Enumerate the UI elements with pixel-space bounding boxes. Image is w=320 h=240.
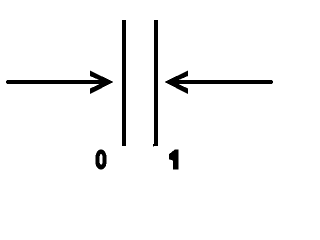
arrowhead of right current arrow (points left, toward pin 1) (165, 71, 189, 95)
capacitor C1 right plate (pin 1) (154, 20, 158, 146)
capacitor C1 left plate (pin 0) (122, 20, 126, 146)
pin number label 1 (169, 150, 178, 170)
arrowhead of left current arrow (points right, toward pin 0) (90, 71, 114, 95)
pin number label 0 (counter) (100, 154, 103, 165)
wire: right current-arrow shaft (170, 80, 271, 84)
capacitor C1 right plate bottom nub (153, 144, 154, 146)
pin number label 0 (outer ring) (96, 150, 107, 170)
wire: left current-arrow shaft (8, 80, 108, 84)
